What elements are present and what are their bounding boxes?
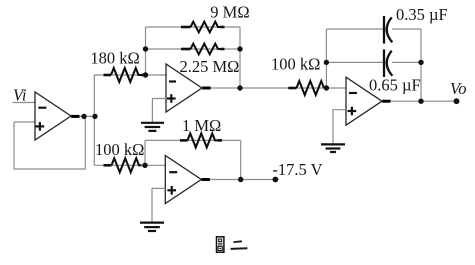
op-amp U3 (165, 156, 210, 204)
node dot U2 output junction (237, 85, 242, 90)
svg-text:1 MΩ: 1 MΩ (182, 116, 221, 135)
node dot 1M junction on U3 output (238, 177, 243, 182)
wire U1 feedback loop (left, bottom, up to output) (14, 116, 85, 169)
wire right node column (feedback to U2 output) (239, 27, 241, 88)
capacitor 0.65 uF (384, 49, 392, 77)
wire U2 non-inverting input to ground (152, 99, 166, 123)
ground G2 (141, 123, 164, 131)
resistor 100 kOhm (bottom) (104, 158, 142, 172)
op-amp U4 (346, 77, 391, 125)
svg-text:9 MΩ: 9 MΩ (210, 3, 249, 22)
ground G3 (140, 223, 164, 231)
resistor 2.25 MOhm (181, 44, 225, 55)
node dot 2.25M junction left (143, 46, 148, 51)
op-amp U1 (35, 92, 80, 140)
svg-text:Vi: Vi (13, 85, 27, 104)
capacitor 0.35 uF (384, 16, 392, 44)
node dot U1 output / branch junction (92, 114, 97, 119)
wire U3 output to -17.5V terminal (201, 179, 275, 181)
svg-text:0.65 µF: 0.65 µF (369, 76, 421, 95)
wire 1M right vertical to U3 output (240, 140, 242, 179)
wire U4 output to Vo (382, 100, 457, 102)
wire 0.65uF branch (326, 61, 421, 63)
resistor 180 kOhm (104, 68, 145, 82)
svg-text:-17.5 V: -17.5 V (272, 160, 322, 179)
ground G4 (321, 144, 345, 152)
svg-text:2.25 MΩ: 2.25 MΩ (180, 57, 240, 76)
resistor 100 kOhm (top) (288, 81, 324, 95)
node dot U4 output junction (418, 99, 423, 104)
svg-text:100 kΩ: 100 kΩ (271, 55, 320, 74)
wire U2 output to 100k (202, 87, 346, 89)
node dot 180k / U2 input (143, 72, 148, 77)
node dot 2.25M junction right (237, 46, 242, 51)
node dot U3 input (142, 163, 147, 168)
wire U3 input node up to 1M (144, 140, 146, 165)
op-amp U2 (166, 64, 211, 112)
wire 100k (bottom) branch (94, 164, 165, 166)
caption glyph 圖 (drawn) (217, 237, 224, 252)
wire 0.35uF branch (326, 28, 421, 30)
wire 1M feedback branch (145, 139, 241, 141)
svg-text:0.35 µF: 0.35 µF (396, 5, 448, 24)
wire cap network left vertical (325, 29, 327, 88)
svg-text:180 kΩ: 180 kΩ (90, 48, 139, 67)
terminal dot -17.5 V (273, 177, 279, 183)
wire Vi input to U1 inverting input (13, 102, 36, 104)
resistor 9 MOhm (181, 22, 225, 33)
node dot U1 output / feedback junction (81, 114, 86, 119)
wire 2.25M feedback branch (146, 48, 241, 50)
terminal dot Vo (454, 98, 460, 104)
node dot caps junction right (418, 60, 423, 65)
wire U4 non-inverting input to ground (333, 110, 346, 144)
node dot 100k / U4 input (324, 85, 329, 90)
wire U1 output (71, 115, 95, 117)
wire 9M feedback branch (146, 26, 241, 28)
svg-text:Vo: Vo (450, 79, 467, 98)
svg-text:100 kΩ: 100 kΩ (95, 140, 144, 159)
wire node column left (to feedback resistors) (145, 27, 147, 75)
resistor 1 MOhm (180, 133, 222, 147)
wire 180k branch (94, 74, 166, 76)
wire U1 non-inverting input (14, 121, 35, 123)
node dot cap network input top (324, 60, 329, 65)
caption glyph 二 (drawn) (231, 241, 248, 249)
wire U3 non-inverting input to ground (152, 188, 165, 222)
wire vertical branch from U1 output (93, 75, 95, 165)
wire cap network right vertical (420, 29, 422, 101)
